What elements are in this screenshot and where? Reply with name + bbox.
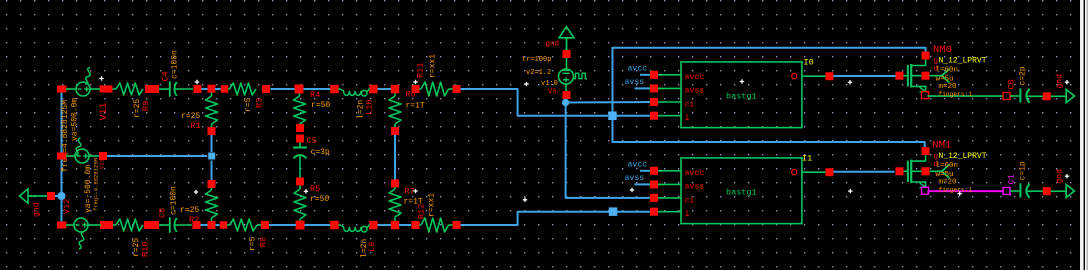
svg-text:v2=1.2: v2=1.2 — [526, 69, 551, 77]
sine marker of V13 — [76, 138, 81, 155]
origin marker V11 — [99, 78, 103, 80]
svg-text:gnd: gnd — [1056, 74, 1065, 89]
sine marker of V11 — [86, 68, 91, 85]
wire R3 to R4 node — [271, 88, 295, 90]
svg-text:l=60n: l=60n — [936, 162, 959, 170]
block I0 bsstg1 (upper) — [681, 62, 802, 128]
wire NM1 source to C1 (selected) — [928, 190, 1004, 192]
svg-text:r=50: r=50 — [310, 195, 329, 204]
output stub lower — [802, 171, 826, 173]
resistor R12 — [412, 221, 420, 229]
svg-text:i: i — [685, 209, 690, 219]
sine marker of V12 — [79, 232, 84, 249]
capacitor C5 (vertical) — [299, 143, 301, 148]
origin marker near C4 — [195, 81, 199, 83]
gate bar of NM0 — [907, 65, 909, 86]
resistor R3 — [221, 85, 229, 93]
bulk arrow of NM1 — [942, 165, 950, 179]
source leg of NM0 — [911, 86, 925, 92]
pin square bottom of R1 — [208, 127, 216, 135]
wire stub avss lower — [635, 183, 651, 185]
wire R6 to R7 — [394, 135, 396, 180]
inductor L9 — [330, 221, 339, 230]
svg-text:gnd: gnd — [1056, 169, 1065, 184]
svg-text:V13: V13 — [99, 159, 106, 169]
svg-text:R9: R9 — [141, 101, 151, 111]
pin squares of V11 — [57, 86, 67, 93]
svg-text:L9: L9 — [367, 242, 377, 252]
pin square R2 top — [208, 180, 216, 188]
resistor R9 — [113, 88, 117, 90]
output stub upper — [802, 75, 826, 77]
origin marker R11 — [413, 81, 417, 83]
input pin gnd — [20, 189, 29, 203]
svg-text:r=5: r=5 — [244, 97, 253, 112]
pin square R4 top — [295, 85, 304, 94]
svg-text:r=25: r=25 — [180, 206, 199, 215]
wire C0 to output pin — [1027, 95, 1044, 97]
pin square R4 bottom — [296, 124, 304, 132]
origin marker lower stage — [523, 199, 527, 201]
origin marker near NM1 — [848, 190, 852, 192]
svg-text:ci: ci — [685, 99, 695, 109]
svg-text:m=20: m=20 — [939, 83, 958, 91]
pin square of gnd pin — [47, 192, 55, 200]
window border right — [1080, 0, 1084, 270]
svg-text:I0: I0 — [804, 58, 814, 68]
resistor R2 (vertical) — [211, 188, 213, 190]
pin square R7 bottom junction — [391, 221, 400, 230]
svg-text:V11: V11 — [99, 102, 110, 120]
capacitor C8 — [159, 224, 169, 226]
pin square C5 top — [296, 135, 304, 143]
svg-text:R5: R5 — [310, 184, 320, 194]
wire NM0 drain net — [613, 48, 926, 112]
svg-text:C0: C0 — [1007, 79, 1017, 89]
channel bar of NM1 — [910, 160, 912, 183]
svg-text:NM0: NM0 — [933, 44, 952, 56]
power symbol gnd (top) — [559, 27, 574, 38]
gate stub of NM1 — [904, 170, 908, 172]
wire NM0 source to C0 — [928, 95, 1004, 97]
wire V5 to junction — [565, 84, 567, 91]
pin squares of upper bsstg1 — [650, 71, 658, 79]
svg-text:avcc: avcc — [628, 161, 648, 170]
resistor R10 — [113, 224, 116, 226]
wire C5 to R5 — [299, 186, 301, 190]
pin square right of C4 — [194, 85, 202, 93]
wire V11 terminals — [66, 88, 76, 90]
wire R8 to R5 — [269, 224, 296, 226]
svg-text:m=20: m=20 — [939, 179, 958, 187]
pin square output top — [1043, 92, 1051, 100]
bulk line of NM0 — [911, 75, 921, 77]
output bubble o lower — [792, 170, 797, 175]
svg-text:C4: C4 — [161, 71, 171, 81]
svg-text:avss: avss — [625, 78, 645, 87]
resistor R6 (vertical) — [394, 94, 396, 97]
wire C4 to junction — [202, 88, 209, 90]
origin marker R12 — [413, 190, 417, 192]
wire stub avss upper — [635, 87, 651, 89]
drain leg of NM1 — [911, 155, 925, 161]
resistor R4 (vertical) — [299, 94, 301, 97]
svg-text:r=25: r=25 — [181, 112, 200, 121]
wire R1 to row2 junction — [211, 135, 213, 152]
wire stub avcc upper — [640, 74, 650, 76]
junction node row2 — [208, 153, 215, 160]
output pin triangle top — [1066, 90, 1074, 103]
svg-text:fingers:1: fingers:1 — [939, 91, 973, 98]
svg-text:c=3p: c=3p — [311, 148, 330, 157]
svg-text:freq=-4.8828125M: freq=-4.8828125M — [93, 158, 100, 211]
pulse marker of V5 — [574, 73, 588, 79]
wire junction to lower i pin — [617, 211, 650, 213]
junction node V5 output — [565, 99, 567, 103]
svg-text:N_12_LPRVT: N_12_LPRVT — [939, 152, 987, 161]
junction ground node — [58, 192, 66, 200]
pin square bottom of V5 — [563, 91, 571, 99]
wire stub avcc lower — [640, 170, 650, 172]
svg-text:avcc: avcc — [685, 169, 705, 178]
block I1 bsstg1 (lower) — [681, 158, 802, 224]
voltage source V12 — [74, 218, 88, 232]
svg-text:c=1p: c=1p — [1019, 161, 1028, 180]
svg-text:avss: avss — [685, 183, 705, 192]
origin marker on NM1 source wire — [958, 193, 962, 195]
pin square gate of NM0 — [896, 72, 904, 80]
resistor R8 — [220, 221, 228, 229]
pin square R11 left — [412, 85, 420, 93]
source arrow of NM1 — [920, 183, 925, 188]
svg-text:avss: avss — [685, 87, 705, 96]
pin square R7 top — [391, 180, 399, 188]
pin square top of V5 — [563, 50, 571, 58]
wire row3 to lower stage input — [461, 212, 610, 225]
wire row2 V13 to junction — [107, 155, 207, 157]
svg-text:C5: C5 — [307, 136, 317, 146]
bulk line of NM1 — [911, 170, 921, 172]
resistor R7 (vertical) — [394, 188, 396, 190]
svg-text:R3: R3 — [255, 98, 265, 108]
junction node input lower — [609, 207, 618, 216]
svg-text:avcc: avcc — [685, 73, 705, 82]
wire junction to R12 — [399, 224, 411, 226]
svg-text:R7: R7 — [405, 187, 415, 197]
drain leg of NM0 — [911, 60, 925, 66]
pin square R6 bottom — [391, 127, 399, 135]
origin marker top output — [1065, 81, 1069, 83]
origin marker V5 — [524, 83, 528, 85]
pin square R6 top junction — [391, 85, 400, 94]
wire vertical ground bus — [61, 88, 63, 226]
svg-text:freq=4.8828125M: freq=4.8828125M — [61, 100, 70, 172]
svg-text:L10: L10 — [365, 100, 375, 115]
wire R4node to L10 — [304, 88, 331, 90]
svg-text:R8: R8 — [259, 237, 269, 247]
wire C1 to output pin — [1027, 190, 1044, 192]
svg-text:v1:0: v1:0 — [541, 80, 558, 88]
svg-text:gnd: gnd — [33, 202, 42, 217]
pin square output upper — [826, 72, 834, 80]
wire gnd pin to bus — [55, 195, 62, 197]
pin square source of NM1 — [922, 187, 929, 194]
capacitor C1 — [1010, 190, 1019, 192]
pin square R2 bottom — [208, 221, 216, 229]
pin square right of C8 — [193, 221, 201, 229]
svg-text:C1: C1 — [1007, 174, 1017, 184]
resistor R1 (vertical) — [211, 93, 213, 97]
pin square R5 bottom — [296, 221, 305, 230]
pin square output lower — [826, 168, 834, 176]
svg-text:C8: C8 — [158, 208, 168, 218]
pin square drain of NM0 — [922, 52, 930, 60]
output bubble o upper — [792, 74, 797, 79]
svg-text:N_12_LPRVT: N_12_LPRVT — [939, 57, 987, 66]
origin marker bottom output — [1065, 175, 1069, 177]
pin squares of V13 — [57, 153, 67, 160]
svg-text:c=100n: c=100n — [171, 50, 180, 79]
svg-text:R1: R1 — [191, 121, 201, 131]
bulk arrow of NM0 — [942, 69, 950, 83]
pin square bulk of NM0 — [922, 72, 930, 80]
svg-text:R12: R12 — [417, 204, 427, 219]
pin stubs of upper bsstg1 — [658, 74, 681, 76]
wire V12 to ground junction — [61, 200, 63, 222]
channel bar of NM0 — [910, 64, 912, 87]
svg-text:r=xx1: r=xx1 — [428, 193, 437, 217]
wire row2 junction to R2 — [211, 161, 213, 181]
pin square source of NM0 — [922, 92, 929, 99]
wire junction to R3 — [215, 88, 222, 90]
wire to V5 — [566, 58, 568, 69]
pin square drain of NM1 — [922, 147, 930, 155]
svg-text:R11: R11 — [416, 63, 426, 78]
output pin triangle bottom — [1066, 185, 1074, 198]
svg-text:va=500.0m: va=500.0m — [71, 98, 80, 141]
pin squares of lower bsstg1 — [650, 167, 658, 175]
svg-text:r=xx1: r=xx1 — [429, 54, 438, 78]
pin square bulk of NM1 — [922, 167, 930, 175]
origin marker lower bsstg1 — [630, 189, 634, 191]
wire C8 to R8 — [201, 224, 220, 226]
svg-text:gnd: gnd — [546, 41, 560, 49]
gate stub of NM0 — [904, 75, 908, 77]
wire drain net lower part — [613, 120, 925, 147]
source arrow of NM0 — [920, 87, 925, 92]
resistor R5 (vertical) — [294, 189, 306, 219]
svg-text:R4: R4 — [310, 90, 320, 100]
capacitor C0 — [1010, 95, 1019, 97]
svg-text:i: i — [685, 113, 690, 123]
junction node input upper — [608, 112, 617, 121]
svg-text:avss: avss — [625, 174, 645, 183]
svg-text:avcc: avcc — [628, 65, 648, 74]
voltage source V13 — [75, 149, 89, 163]
svg-text:tr=100p: tr=100p — [522, 56, 551, 64]
pin square C0 left (open) — [1003, 93, 1010, 100]
svg-text:r=1T: r=1T — [406, 102, 425, 111]
svg-text:NM1: NM1 — [932, 140, 951, 152]
svg-text:g: g — [934, 58, 939, 66]
wire V5 to upper ci pin — [566, 101, 650, 104]
svg-text:V5: V5 — [548, 89, 556, 97]
wire to NM0 gate — [834, 75, 896, 77]
svg-text:r=5: r=5 — [249, 236, 258, 251]
svg-text:g: g — [934, 153, 939, 161]
svg-text:c=2p: c=2p — [1019, 66, 1028, 85]
svg-text:fingers:1: fingers:1 — [939, 187, 973, 194]
svg-text:R10: R10 — [141, 242, 151, 257]
origin marker on gate wire — [848, 81, 852, 83]
origin marker upper bsstg1 — [740, 81, 744, 83]
wire row1 to upper stage input — [461, 89, 609, 116]
svg-text:bastg1: bastg1 — [726, 188, 757, 198]
svg-text:bastg1: bastg1 — [726, 92, 757, 102]
pin square R11 right — [453, 85, 461, 93]
junction node row1 — [208, 85, 216, 93]
origin marker near R5 — [304, 190, 308, 192]
wire L10 to R6 junction — [378, 88, 392, 90]
pin stubs of lower bsstg1 — [658, 170, 681, 172]
inductor L10 — [330, 85, 339, 94]
voltage source V5 — [559, 69, 574, 84]
svg-text:I1: I1 — [802, 154, 812, 164]
pin square C1 left (selected) — [1003, 188, 1010, 195]
pin squares of V12 — [57, 222, 67, 229]
origin marker near C8 — [194, 191, 198, 193]
pin square C5 bottom — [296, 178, 304, 186]
svg-text:c=100n: c=100n — [170, 186, 179, 215]
wire R5 to L9 — [305, 224, 331, 226]
wire L9 to R7 junction — [378, 224, 392, 226]
pin square gate of NM1 — [896, 167, 904, 175]
gate bar of NM1 — [907, 161, 909, 182]
junction node V5 output dot — [562, 99, 569, 106]
pin square output bottom — [1043, 187, 1051, 195]
wire V5 to lower ci pin — [566, 103, 650, 198]
wire to NM1 gate — [834, 171, 895, 173]
resistor R11 — [420, 88, 422, 90]
svg-text:V12: V12 — [62, 199, 72, 214]
capacitor C4 — [159, 88, 169, 90]
svg-text:ci: ci — [685, 195, 695, 205]
voltage source V11 — [76, 82, 90, 96]
svg-text:r=50: r=50 — [311, 101, 330, 110]
svg-text:l=60n: l=60n — [936, 67, 959, 75]
wire junction to i pin — [617, 115, 651, 117]
source leg of NM1 — [911, 182, 925, 188]
